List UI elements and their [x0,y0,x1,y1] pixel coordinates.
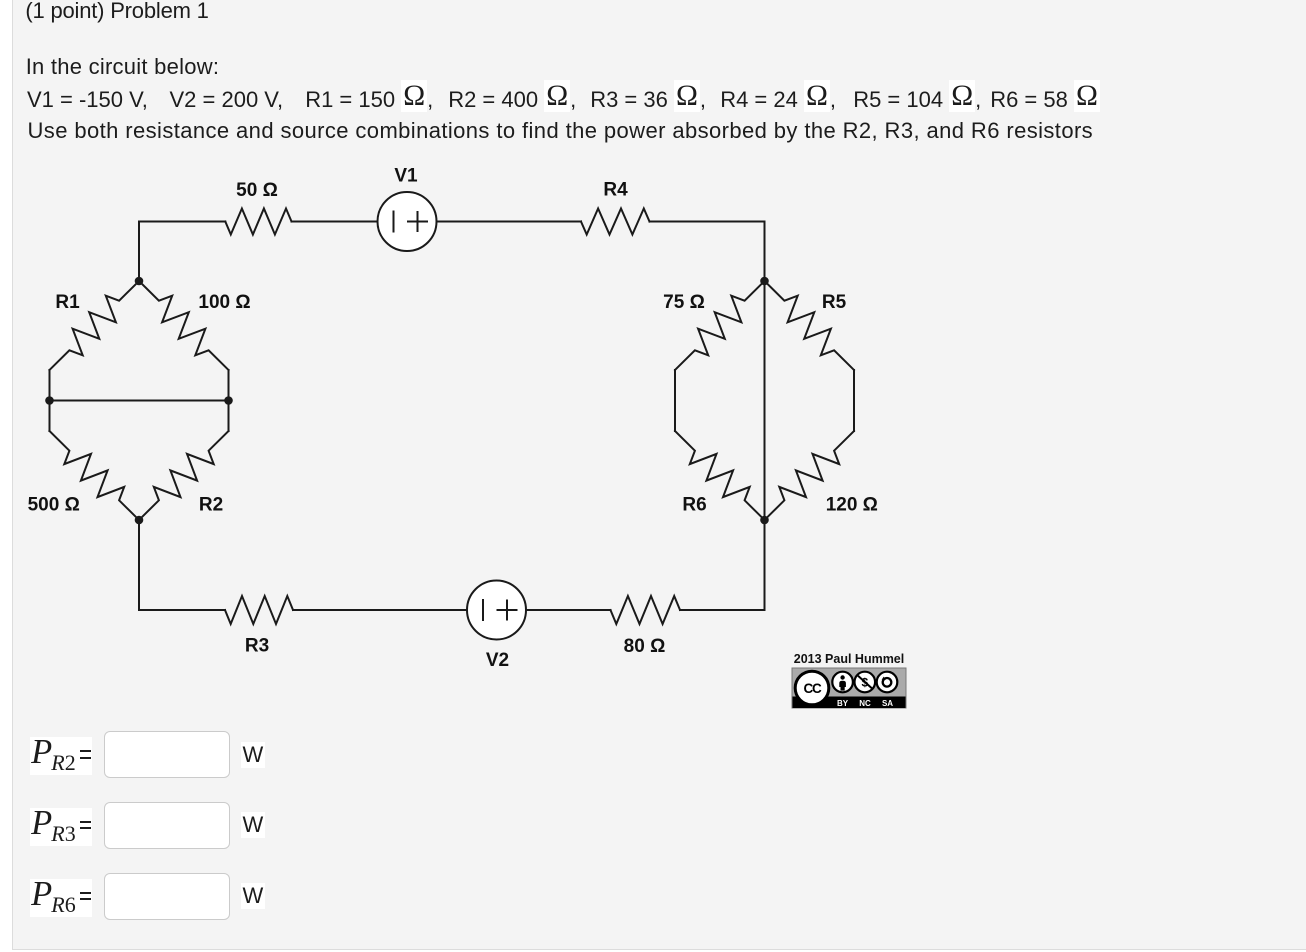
resistor 80ohm [611,596,681,624]
resistor R3 [225,596,293,624]
wire right vertical center [764,222,766,611]
svg-text:R1: R1 [55,292,80,313]
node left bridge right node [224,396,233,405]
svg-text:V1: V1 [394,166,418,187]
resistor 75ohm [675,281,765,370]
wire bottom rail right [680,609,765,611]
svg-text:50 Ω: 50 Ω [236,180,278,201]
node left bridge top node [135,277,144,286]
svg-text:R5: R5 [822,292,847,313]
svg-text:100 Ω: 100 Ω [198,292,250,313]
node right bridge top node [760,277,769,286]
wire right bridge left side [674,370,676,431]
svg-text:500 Ω: 500 Ω [28,495,80,516]
wire top-left vertical [138,222,140,282]
wire bottom-left vertical [138,520,140,610]
svg-text:R2: R2 [199,495,223,516]
node left bridge left node [45,396,54,405]
wire right bridge right side [853,370,855,431]
resistor R1 [50,281,140,370]
resistor 120ohm [765,431,855,520]
svg-text:R4: R4 [603,180,628,201]
svg-text:SA: SA [882,699,893,708]
wire top rail mid-left [292,221,378,223]
resistor 50ohm [225,209,291,235]
wire top rail mid-right [437,221,582,223]
wire bottom rail left [139,609,225,611]
svg-text:NC: NC [859,699,871,708]
svg-text:75 Ω: 75 Ω [663,292,705,313]
answer row P_R2 [30,737,92,775]
wire bottom rail mid-right [527,609,611,611]
resistor 100ohm [139,281,229,370]
svg-text:CC: CC [803,681,822,696]
wire top rail right [650,221,765,223]
wire top rail left [139,221,225,223]
answer row P_R6 [30,879,92,917]
svg-text:BY: BY [837,699,849,708]
wire bottom rail mid-left [293,609,467,611]
wire left bridge right side [228,370,230,431]
resistor 500ohm [50,431,140,520]
voltage source V1 [378,192,437,251]
svg-text:R3: R3 [245,636,269,657]
answer row P_R3 [30,808,92,846]
svg-text:120 Ω: 120 Ω [826,495,878,516]
resistor R4 [581,209,650,235]
wire left bridge middle [50,400,229,402]
node right bridge bottom node [760,516,769,525]
svg-text:R6: R6 [682,495,706,516]
resistor R6 [675,431,765,520]
resistor R2 [139,431,229,520]
wire left bridge left side [49,370,51,431]
node left bridge bottom node [135,516,144,525]
resistor R5 [765,281,855,370]
svg-text:V2: V2 [486,650,509,671]
CC BY-NC-SA badge [792,668,906,708]
svg-text:80 Ω: 80 Ω [624,636,666,657]
voltage source V2 [467,581,526,640]
svg-text:2013 Paul Hummel: 2013 Paul Hummel [794,652,904,666]
